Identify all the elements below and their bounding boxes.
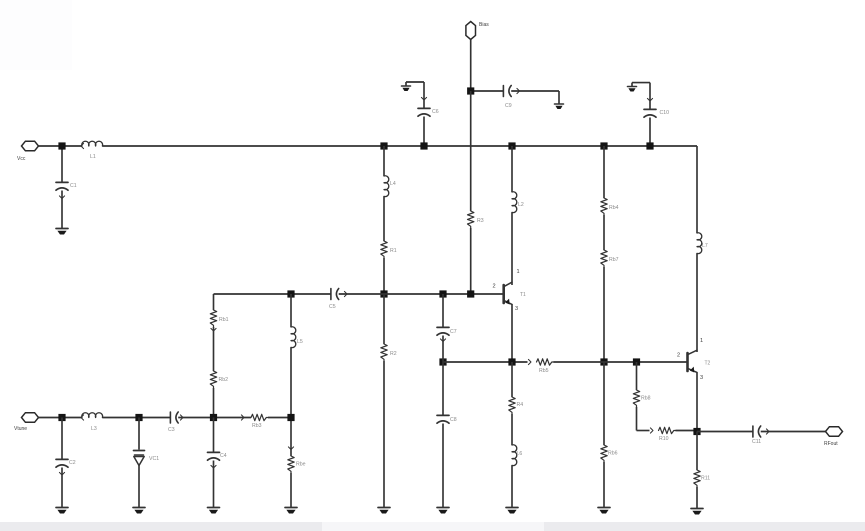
node base-L5 — [287, 290, 294, 297]
node bias-tee — [467, 87, 474, 94]
bottom gray band — [0, 522, 865, 531]
ground — [133, 507, 145, 509]
resistor Rb1 — [210, 310, 216, 327]
pin arrow — [180, 415, 183, 420]
capacitor C10 — [644, 108, 656, 110]
wire T2 base node down to Rb8 — [636, 362, 638, 390]
svg-text:Vcc: Vcc — [17, 156, 26, 162]
pin arrow — [517, 88, 520, 93]
capacitor C9 — [502, 86, 504, 97]
wire base line left — [214, 293, 331, 295]
wire L4 to R1 — [383, 196, 385, 241]
wire Vcc to node — [39, 145, 83, 147]
pin arrow — [344, 291, 347, 296]
svg-text:Rb5: Rb5 — [539, 368, 549, 374]
wire Rb5 to T2 base — [554, 361, 688, 363]
ground — [437, 507, 449, 509]
svg-text:R3: R3 — [477, 218, 484, 224]
wire rail to L4 — [383, 146, 385, 176]
node out — [693, 428, 700, 435]
capacitor C7 — [437, 326, 449, 328]
wire node to VC1 — [138, 418, 140, 450]
wire T1 emitter down — [511, 304, 513, 362]
capacitor C8 — [437, 414, 449, 416]
wire corner to R10 — [637, 430, 650, 432]
wire node to C2 — [61, 418, 63, 460]
inductor L1 — [82, 141, 103, 146]
resistor R2 — [381, 344, 387, 361]
resistor R11 — [694, 470, 700, 487]
wire gnd arm C10 — [632, 82, 650, 84]
svg-text:VC1: VC1 — [149, 456, 159, 462]
resistor Rb5 — [537, 359, 554, 365]
pin arrow — [59, 472, 64, 475]
ground — [402, 85, 411, 87]
svg-text:Vtune: Vtune — [14, 426, 27, 432]
wire R11 to ground — [696, 487, 698, 508]
capacitor C6 — [418, 107, 430, 109]
svg-text:3: 3 — [700, 375, 703, 381]
node rail-C6 — [420, 142, 427, 149]
node em-B — [508, 358, 515, 365]
wire node to C1 — [61, 146, 63, 182]
wire to C9 — [471, 90, 504, 92]
wire C7 to emitter line — [442, 336, 444, 363]
svg-text:2: 2 — [493, 284, 496, 290]
wire rail to L2 — [511, 146, 513, 192]
svg-text:C9: C9 — [505, 103, 512, 109]
pin arrow — [528, 359, 531, 364]
pin arrow — [647, 98, 652, 101]
capacitor C1 — [56, 181, 68, 183]
wire base to L5 — [290, 294, 292, 327]
ground — [378, 507, 390, 509]
svg-text:C7: C7 — [450, 329, 457, 335]
svg-text:Rbe: Rbe — [296, 462, 306, 468]
pin arrow — [211, 328, 216, 331]
svg-text:Rb4: Rb4 — [609, 205, 619, 211]
wire C10 to rail — [649, 118, 651, 147]
svg-text:1: 1 — [517, 269, 520, 275]
svg-text:2: 2 — [677, 353, 680, 359]
svg-text:Rb7: Rb7 — [609, 257, 619, 263]
resistor R10 — [659, 427, 676, 433]
transistor T2 — [686, 353, 689, 371]
ground — [628, 86, 637, 88]
ground — [506, 507, 518, 509]
wire Bias port down — [470, 40, 472, 92]
wire Vtune to node — [39, 417, 83, 419]
ground — [598, 507, 610, 509]
pin arrow — [766, 429, 769, 434]
port Bias — [466, 22, 476, 40]
resistor Rb7 — [601, 250, 607, 267]
inductor L4 — [384, 176, 389, 197]
resistor Rb4 — [601, 198, 607, 215]
wire C1 to ground — [61, 191, 63, 229]
node em-A — [439, 358, 446, 365]
transistor T1 — [502, 285, 505, 303]
resistor Rb8 — [633, 390, 639, 407]
port Vtune — [22, 413, 39, 423]
resistor Rb2 — [210, 371, 216, 388]
node Vtune-n — [58, 414, 65, 421]
wire mid node to Rb6 — [603, 362, 605, 445]
svg-text:L5: L5 — [297, 339, 303, 345]
pin arrow — [440, 339, 445, 342]
wire rail to Rb4 — [603, 146, 605, 198]
wire L6 to ground — [511, 465, 513, 507]
node rail-B — [508, 142, 515, 149]
wire VC1 to ground — [138, 466, 140, 508]
pin arrow — [59, 196, 64, 199]
inductor L6 — [512, 445, 517, 466]
wire rail corner down to L7 — [696, 146, 698, 233]
svg-text:Bias: Bias — [479, 22, 489, 28]
svg-text:C2: C2 — [69, 460, 76, 466]
wire emitter line left — [443, 361, 528, 363]
resistor Rbe — [288, 456, 294, 473]
svg-text:C5: C5 — [329, 304, 336, 310]
wire C11 to RFout — [761, 431, 826, 433]
svg-text:C11: C11 — [752, 439, 761, 445]
ground — [285, 507, 297, 509]
port RFout — [826, 427, 843, 437]
wire base corner down to Rb1 — [213, 294, 215, 310]
svg-text:Rb8: Rb8 — [641, 396, 651, 402]
pin arrow — [81, 415, 84, 420]
wire Rb8 to corner — [636, 407, 638, 431]
ground — [208, 507, 220, 509]
inductor L3 — [82, 413, 103, 418]
node base-A — [380, 290, 387, 297]
svg-text:L4: L4 — [390, 181, 396, 187]
svg-text:C8: C8 — [450, 417, 457, 423]
wire C4 to ground — [213, 461, 215, 508]
svg-text:R4: R4 — [517, 402, 524, 408]
wire Rb2 to bottom rail — [213, 388, 215, 418]
wire Rb1 to Rb2 — [213, 327, 215, 371]
ground — [555, 103, 564, 105]
resistor Rb6 — [601, 445, 607, 462]
resistor R1 — [381, 241, 387, 258]
svg-text:C4: C4 — [220, 453, 227, 459]
wire to C10 — [649, 83, 651, 109]
wire down to ground — [558, 91, 560, 104]
node Vcc — [58, 142, 65, 149]
wire base line to C7 — [442, 294, 444, 327]
wire T2 emitter down — [696, 372, 698, 431]
svg-text:R1: R1 — [390, 248, 397, 254]
resistor Rb3 — [251, 414, 268, 420]
inductor L7 — [697, 233, 702, 254]
svg-text:R2: R2 — [390, 351, 397, 357]
svg-text:3: 3 — [515, 306, 518, 312]
ground — [691, 508, 703, 510]
wire out node to R11 — [696, 432, 698, 471]
svg-text:1: 1 — [700, 338, 703, 344]
wire Vcc rail — [384, 145, 697, 147]
wire R4 to L6 — [511, 414, 513, 445]
wire out to C11 — [697, 431, 753, 433]
capacitor C11 — [752, 426, 754, 437]
pin arrow — [211, 465, 216, 468]
wire emitter line to C8 — [442, 362, 444, 415]
svg-text:L1: L1 — [90, 154, 96, 160]
wire R2 to ground — [383, 361, 385, 507]
wire L5 to bottom rail — [290, 347, 292, 417]
svg-text:L7: L7 — [702, 243, 708, 249]
node em-C — [633, 358, 640, 365]
wire C6 to rail — [423, 117, 425, 147]
wire C9 to gnd corner — [511, 90, 559, 92]
wire Rb6 to ground — [603, 462, 605, 507]
varactor VC1 — [134, 450, 145, 452]
svg-text:L3: L3 — [91, 426, 97, 432]
svg-text:C3: C3 — [168, 427, 175, 433]
svg-text:T1: T1 — [520, 292, 526, 298]
pin arrow — [81, 143, 84, 148]
svg-text:Rb2: Rb2 — [219, 377, 229, 383]
ground — [56, 507, 68, 509]
pin arrow — [241, 415, 244, 420]
wire Rb4 to Rb7 — [603, 215, 605, 250]
svg-text:Rb6: Rb6 — [608, 451, 618, 457]
svg-text:R11: R11 — [701, 476, 710, 482]
wire R10 to emitter node — [676, 430, 698, 432]
resistor R4 — [509, 397, 515, 414]
svg-text:RFout: RFout — [824, 441, 838, 447]
wire L2 to T1 collector — [511, 212, 513, 282]
wire emitter node to R4 — [511, 362, 513, 397]
node base-bias — [467, 290, 474, 297]
capacitor C5 — [330, 289, 332, 300]
svg-text:T2: T2 — [705, 361, 711, 367]
wire gnd arm C6 — [406, 81, 424, 83]
svg-text:L6: L6 — [517, 451, 523, 457]
wire C8 to ground — [442, 424, 444, 508]
svg-text:Rb1: Rb1 — [219, 317, 229, 323]
wire L1 to rail — [102, 145, 384, 147]
node VC1-n — [135, 414, 142, 421]
pin arrow — [421, 97, 426, 100]
node C4-n — [210, 414, 217, 421]
wire to R2 — [383, 294, 385, 344]
wire T1 collector stub — [511, 282, 513, 285]
port Vcc — [22, 141, 39, 151]
inductor L5 — [291, 327, 296, 348]
wire C2 to ground — [61, 468, 63, 508]
pin arrow — [288, 447, 293, 450]
node rail-A — [380, 142, 387, 149]
wire C5 to T1 base — [339, 293, 503, 295]
wire bottom rail to Rbe — [290, 418, 292, 457]
wire Rbe to ground — [290, 473, 292, 507]
svg-text:C1: C1 — [70, 183, 77, 189]
wire R3 to base node — [470, 228, 472, 294]
node rail-C10 — [646, 142, 653, 149]
wire Rb7 to mid node — [603, 267, 605, 362]
wire bias down crossing rail — [470, 91, 472, 211]
pin arrow — [650, 428, 653, 433]
capacitor C3 — [169, 412, 171, 423]
resistor R3 — [468, 211, 474, 228]
svg-text:Rb3: Rb3 — [252, 423, 262, 429]
wire to C6 — [423, 82, 425, 108]
svg-text:R10: R10 — [659, 436, 669, 442]
capacitor C4 — [208, 451, 220, 453]
wire Rb3 to node — [268, 417, 291, 419]
wire node to C4 — [213, 418, 215, 453]
wire L7 to T2 collector — [696, 253, 698, 350]
node L5-n — [287, 414, 294, 421]
wire C3 to Rb3 — [178, 417, 251, 419]
inductor L2 — [512, 192, 517, 213]
node rail-C — [600, 142, 607, 149]
svg-text:C10: C10 — [660, 110, 670, 116]
wire L3 to C3 — [102, 417, 170, 419]
svg-text:L2: L2 — [518, 202, 524, 208]
wire T2 collector stub — [696, 350, 698, 352]
capacitor C2 — [56, 458, 68, 460]
ground — [56, 228, 68, 230]
node base-C7 — [439, 290, 446, 297]
node mid-C — [600, 358, 607, 365]
wire R1 to base line — [383, 258, 385, 294]
svg-text:C6: C6 — [432, 109, 439, 115]
